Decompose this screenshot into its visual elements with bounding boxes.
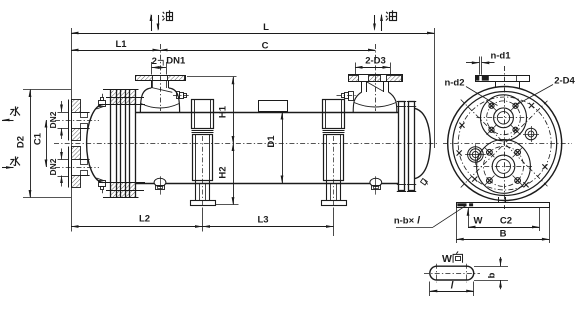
svg-text:C1: C1 xyxy=(33,132,44,145)
svg-text:C2: C2 xyxy=(500,216,512,227)
cover flange right bar 2 xyxy=(409,102,415,191)
top nozzle neck edge view xyxy=(495,81,497,88)
top nozzle flange edge view xyxy=(476,76,530,82)
water nozzle DN2 bottom centerline xyxy=(55,167,99,169)
support clamp right bolt seam xyxy=(323,130,345,132)
svg-text:L2: L2 xyxy=(139,213,150,224)
end cover dome xyxy=(415,108,431,178)
nameplate boss on shell top xyxy=(259,101,288,112)
water nozzle DN2 bottom flange xyxy=(68,147,70,188)
support right base plate xyxy=(322,201,347,206)
dimension L2 xyxy=(71,226,203,228)
dimension H2 xyxy=(216,204,239,206)
oil nozzle DN1 flange plate xyxy=(136,76,186,81)
dimension L xyxy=(71,33,435,35)
support clamp left upper band xyxy=(192,100,214,129)
extension line right end xyxy=(434,28,436,148)
shell top line xyxy=(135,112,398,114)
dimension b extension lines xyxy=(474,266,508,268)
dimension DN1 arrows xyxy=(151,67,166,69)
dimension B xyxy=(456,208,458,244)
dimension l extension lines xyxy=(429,282,431,297)
support clamp right upper band xyxy=(323,100,345,129)
end view diagonal centerline NE-SW xyxy=(461,100,549,188)
bonnet dished head xyxy=(87,105,103,183)
drain plug left xyxy=(154,178,166,186)
end view bolt circle xyxy=(458,97,551,190)
dimension b xyxy=(500,257,502,266)
end view horizontal centerline xyxy=(443,143,572,145)
oil nozzle D3 bell xyxy=(353,92,362,112)
DN2 bore extension lines top xyxy=(58,112,70,114)
small boss right xyxy=(525,128,537,140)
upper port bolt holes xyxy=(487,101,497,111)
dimension D1 xyxy=(282,112,284,183)
svg-text:b: b xyxy=(487,272,498,278)
svg-text:n-d1: n-d1 xyxy=(490,51,511,62)
dimension L1 xyxy=(71,50,160,52)
oil flow arrows left xyxy=(151,15,153,31)
lower port flange D4 xyxy=(477,140,531,194)
cover drain boss xyxy=(421,179,428,186)
dimension DN2 top xyxy=(61,101,63,112)
dimension C xyxy=(160,50,376,52)
bonnet hub slant top xyxy=(97,106,105,109)
support left leg xyxy=(195,181,197,201)
svg-text:C: C xyxy=(262,40,269,51)
drain plug right xyxy=(370,178,382,186)
bonnet flange bolt bottom xyxy=(99,181,106,187)
svg-text:l: l xyxy=(417,216,420,227)
dimension n-d1 xyxy=(479,57,481,75)
dimension D2 extension lines xyxy=(23,89,71,91)
svg-text:H1: H1 xyxy=(218,105,229,118)
vent plug on DN1 nozzle xyxy=(177,92,180,99)
extension line left end xyxy=(71,28,73,232)
extension line left saddle center xyxy=(202,208,204,232)
svg-text:DN2: DN2 xyxy=(48,111,58,128)
svg-text:D1: D1 xyxy=(266,135,277,148)
dimension W xyxy=(468,208,470,228)
dimension DN2 bottom xyxy=(61,149,63,160)
svg-text:W: W xyxy=(442,253,452,265)
upper port flange D4 xyxy=(481,95,527,141)
dimension D3 arrows xyxy=(355,67,390,69)
oil nozzle DN1 centerline xyxy=(160,44,162,111)
support clamp left lower band xyxy=(193,135,213,181)
slot centerlines xyxy=(424,273,480,275)
svg-text:L1: L1 xyxy=(115,39,127,50)
dimension C2 xyxy=(539,208,541,232)
small boss left xyxy=(468,147,484,163)
end view base foot stem xyxy=(498,197,500,203)
oil nozzle D3 centerline xyxy=(375,44,377,111)
oil nozzle D3 neck xyxy=(361,81,363,92)
oil label left xyxy=(163,12,165,14)
water nozzle DN2 top flange xyxy=(68,100,70,141)
support left base plate xyxy=(191,201,216,206)
bonnet flange bolt top xyxy=(99,101,106,107)
end view base plate xyxy=(457,203,550,208)
svg-text:2-D4: 2-D4 xyxy=(554,76,575,87)
oil nozzle DN1 neck xyxy=(151,81,153,88)
end view outer flange circle xyxy=(448,87,562,201)
svg-text:2: 2 xyxy=(152,56,157,67)
flange bolt hole ticks xyxy=(529,103,534,108)
svg-text:2-D3: 2-D3 xyxy=(365,55,386,66)
dimension C1 xyxy=(46,120,48,167)
water label top xyxy=(15,106,17,116)
vent plug on D3 nozzle xyxy=(349,92,354,101)
dimension l xyxy=(430,291,474,293)
oil nozzle D3 flange plate xyxy=(349,75,403,82)
oil label right xyxy=(386,12,388,14)
support clamp left bolt seam xyxy=(192,130,214,132)
oil nozzle DN1 bell xyxy=(140,88,151,112)
svg-text:L: L xyxy=(263,22,269,33)
dimension D3 extension lines xyxy=(355,63,357,75)
water label bottom xyxy=(15,156,17,166)
slot obround xyxy=(430,266,474,280)
svg-text:n-d2: n-d2 xyxy=(444,78,464,89)
svg-text:H2: H2 xyxy=(218,166,229,178)
shell flange right bar 1 xyxy=(399,102,405,191)
bonnet hub slant bottom xyxy=(97,178,105,181)
svg-text:D2: D2 xyxy=(16,136,27,148)
extension line right saddle center xyxy=(333,208,335,237)
shell bottom line xyxy=(135,183,398,185)
water nozzle DN2 top pipe xyxy=(80,112,90,114)
oil flow arrows right xyxy=(374,15,376,30)
end view inner flange circle xyxy=(453,92,557,196)
svg-text:W: W xyxy=(474,216,483,227)
svg-text:n-b×: n-b× xyxy=(394,216,415,227)
end view diagonal centerline NW-SE xyxy=(461,100,549,188)
lower port bolt holes xyxy=(484,147,494,157)
svg-text:L3: L3 xyxy=(257,215,268,226)
svg-text:DN1: DN1 xyxy=(166,56,186,67)
svg-text:DN2: DN2 xyxy=(48,158,58,175)
dimension DN1 extension lines xyxy=(151,62,153,75)
support right leg xyxy=(326,181,328,201)
svg-text:B: B xyxy=(500,228,507,239)
dimension D2 xyxy=(30,90,32,198)
end view vertical centerline xyxy=(504,66,506,209)
svg-text:l: l xyxy=(451,281,454,292)
support clamp right lower band xyxy=(324,135,344,181)
bonnet/tubesheet flange stack xyxy=(110,90,112,198)
dimension H1 xyxy=(187,76,237,78)
dimension L3 xyxy=(203,226,334,228)
water nozzle DN2 bottom pipe xyxy=(80,159,90,161)
DN2 bore extension lines bottom xyxy=(58,159,70,161)
main shell centerline xyxy=(54,143,437,145)
water nozzle DN2 top centerline xyxy=(55,120,99,122)
